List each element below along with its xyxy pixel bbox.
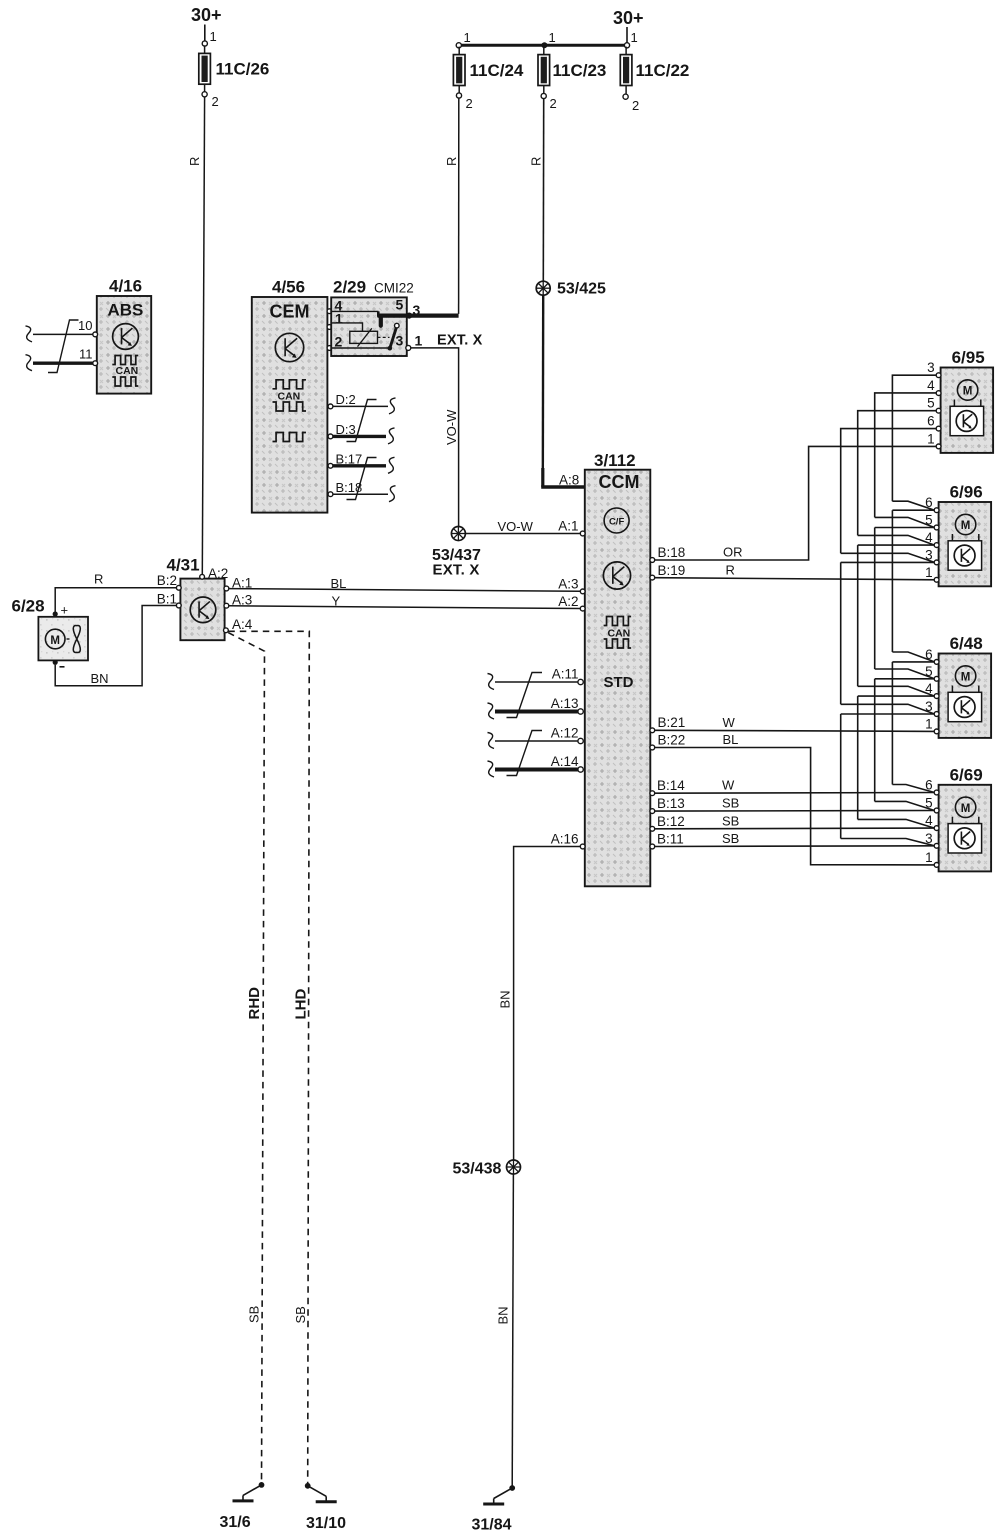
6/69 pin 3 (934, 843, 939, 848)
wire SB from CCM B:13 to 6/69 pin 5 (655, 810, 937, 813)
svg-text:1: 1 (925, 850, 933, 865)
CCM pin A:12 (578, 738, 583, 743)
6/95 pin 5 (936, 408, 941, 413)
wire BL from CCM B:22 to 6/69 pin 1 (655, 748, 937, 865)
svg-text:2: 2 (212, 94, 219, 109)
svg-text:M: M (50, 635, 60, 647)
svg-text:D:2: D:2 (336, 392, 356, 407)
wire R from 6/28 to 4/31 B:2 (55, 588, 178, 612)
svg-text:STD: STD (604, 674, 634, 691)
svg-text:B:12: B:12 (657, 814, 685, 829)
wire R from 11C/24 pin 2 to relay 2/29 (458, 98, 460, 314)
6/48 pin 3 (934, 712, 939, 717)
wire Y from 4/31 A:3 to CCM A:2 (229, 606, 581, 609)
wire to ABS pin 10 (33, 333, 93, 335)
cut mark (D:2) (389, 398, 396, 414)
svg-text:BL: BL (723, 732, 739, 747)
svg-text:6: 6 (925, 495, 933, 510)
6/28 plus terminal (53, 611, 58, 616)
wire R from 11C/26 pin 2 to 4/31 A:2 (202, 97, 204, 575)
svg-text:W: W (722, 778, 735, 793)
6/28 minus terminal (53, 660, 58, 665)
CEM pin 1 (327, 325, 332, 330)
servo motor module 6/96 (939, 502, 992, 586)
svg-text:CEM: CEM (270, 302, 310, 322)
CCM pin B:21 (650, 728, 655, 733)
motor symbol M in 6/48 (952, 666, 978, 693)
svg-text:3: 3 (925, 699, 933, 714)
svg-text:2: 2 (335, 334, 343, 350)
CCM pin A:2 (580, 606, 585, 611)
junction 11C/23 pin 1 (541, 42, 547, 48)
CCM pin B:12 (650, 826, 655, 831)
4/31 pin A:1 (224, 586, 229, 591)
svg-text:53/438: 53/438 (453, 1161, 502, 1178)
svg-text:BL: BL (331, 576, 347, 591)
C/F symbol in CCM (604, 508, 629, 533)
svg-text:3/112: 3/112 (594, 451, 636, 470)
splice 53/438 (507, 1160, 521, 1174)
fan blade symbol in 6/28 (73, 626, 80, 653)
svg-text:B:13: B:13 (657, 796, 685, 811)
svg-text:EXT. X: EXT. X (433, 562, 480, 579)
6/69 pin 4 (934, 826, 939, 831)
svg-text:6/96: 6/96 (950, 483, 983, 502)
6/48 pin 6 (934, 660, 939, 665)
6/95 pin 3 (936, 373, 941, 378)
svg-text:31/84: 31/84 (472, 1517, 512, 1534)
twisted pair slash (ABS) (48, 320, 79, 373)
ground 31/6 (259, 1482, 265, 1488)
svg-text:R: R (444, 157, 459, 166)
svg-text:4/31: 4/31 (167, 556, 200, 575)
svg-text:R: R (187, 157, 202, 166)
svg-text:VO-W: VO-W (498, 519, 534, 534)
svg-text:1: 1 (335, 311, 343, 327)
svg-text:1: 1 (927, 431, 935, 446)
6/69 pin 1 (934, 863, 939, 868)
cut mark (pin 11 wire) (26, 355, 33, 371)
svg-text:A:12: A:12 (551, 726, 579, 741)
svg-text:M: M (961, 672, 971, 684)
svg-text:6/28: 6/28 (12, 597, 45, 616)
svg-text:BN: BN (498, 990, 513, 1008)
svg-text:A:1: A:1 (558, 519, 578, 534)
svg-text:SB: SB (722, 813, 739, 828)
relay pin 4 wire (331, 310, 378, 312)
CEM pin 4 (327, 309, 332, 314)
6/95 pin 6 (936, 426, 941, 431)
svg-text:A:4: A:4 (232, 617, 253, 632)
CAN symbol in ABS (112, 356, 138, 387)
cut mark (B:18) (389, 486, 396, 502)
svg-text:BN: BN (91, 671, 109, 686)
CCM pin B:13 (650, 809, 655, 814)
ground 31/10 (305, 1483, 311, 1489)
svg-text:30+: 30+ (191, 5, 222, 25)
svg-text:5: 5 (925, 796, 933, 811)
cut mark (A:13) (488, 703, 495, 719)
svg-text:ABS: ABS (108, 301, 144, 320)
svg-text:1: 1 (549, 30, 556, 45)
svg-text:SB: SB (247, 1306, 262, 1323)
svg-text:2/29: 2/29 (333, 278, 366, 297)
wire 30+ to 11C/22 pin 1 (626, 27, 628, 43)
cut mark (A:14) (488, 761, 495, 777)
svg-text:C/F: C/F (609, 517, 625, 528)
svg-text:4/16: 4/16 (109, 277, 142, 296)
svg-text:10: 10 (78, 318, 92, 333)
svg-text:1: 1 (210, 29, 217, 44)
wire to ABS pin 11 (thick) (33, 362, 93, 365)
svg-text:R: R (726, 563, 735, 578)
6/96 pin 1 (934, 577, 939, 582)
K symbol in ABS (113, 324, 139, 350)
4/31 pin B:2 (176, 585, 181, 590)
svg-text:CAN: CAN (278, 391, 301, 403)
svg-text:11: 11 (79, 347, 93, 362)
CEM pin D:2 (328, 404, 333, 409)
svg-text:5: 5 (396, 297, 404, 313)
svg-text:RHD: RHD (246, 987, 263, 1020)
svg-text:3: 3 (413, 302, 421, 318)
svg-text:31/10: 31/10 (306, 1515, 346, 1532)
wire BN from CCM A:16 to ground 31/84 (514, 847, 581, 1161)
6/96 pin 4 (934, 543, 939, 548)
svg-text:1: 1 (925, 565, 933, 580)
fan motor 6/28 (38, 617, 88, 661)
bus wire (pins 4) (858, 411, 937, 828)
wire to A:13 (thick) (495, 710, 578, 714)
6/96 pin 3 (934, 560, 939, 565)
svg-text:B:1: B:1 (157, 592, 177, 607)
K symbol in 6/48 (948, 692, 982, 721)
svg-text:1: 1 (464, 30, 471, 45)
6/96 pin 5 (934, 525, 939, 530)
wire R from CCM B:19 to 6/96 pin 1 (655, 578, 937, 580)
svg-text:A:14: A:14 (551, 754, 579, 769)
relay feed (thick) to pin 5 / fuse 11C/24 (378, 313, 459, 326)
4/31 pin A:2 (200, 574, 205, 579)
svg-text:SB: SB (722, 796, 739, 811)
svg-text:+: + (61, 603, 69, 618)
svg-text:4: 4 (925, 681, 933, 696)
ABS pin 10 (93, 332, 98, 337)
svg-text:2: 2 (632, 98, 639, 113)
splice 53/425 (536, 281, 550, 295)
svg-text:5: 5 (925, 513, 933, 528)
wire R from 11C/23 pin 2 to splice 53/425 (542, 99, 544, 282)
CCM pin A:16 (580, 844, 585, 849)
svg-text:31/6: 31/6 (220, 1514, 251, 1531)
svg-text:B:22: B:22 (658, 733, 686, 748)
motor symbol M in 6/69 (952, 797, 978, 824)
4/31 pin A:3 (224, 603, 229, 608)
6/95 pin 1 (936, 444, 941, 449)
svg-text:6: 6 (925, 647, 933, 662)
svg-text:B:21: B:21 (658, 715, 686, 730)
wire to A:14 (thick) (495, 768, 578, 772)
svg-text:30+: 30+ (613, 8, 644, 28)
wire VO-W from splice to CCM A:1 (466, 533, 581, 535)
control module 3/112 CCM (585, 470, 651, 887)
CEM pin 2 (327, 346, 332, 351)
svg-text:M: M (961, 520, 971, 532)
svg-text:CMI22: CMI22 (374, 281, 414, 296)
wire W from CCM B:14 to 6/69 pin 6 (655, 792, 937, 795)
svg-text:11C/24: 11C/24 (470, 61, 524, 80)
6/69 pin 6 (934, 790, 939, 795)
svg-text:VO-W: VO-W (444, 409, 459, 445)
CCM pin A:14 (578, 767, 583, 772)
svg-text:OR: OR (723, 545, 743, 560)
relay pin 1 wire to coil (331, 323, 362, 331)
K symbol in CEM (275, 333, 303, 361)
twisted pair slash (B:17/B:18) (347, 458, 377, 500)
wire from D:2 (333, 405, 388, 407)
wire BL from 4/31 A:1 to CCM A:3 (229, 589, 581, 592)
svg-text:4/56: 4/56 (272, 278, 305, 297)
svg-text:B:2: B:2 (157, 573, 177, 588)
svg-text:EXT. X: EXT. X (437, 333, 483, 349)
servo motor module 6/95 (941, 368, 994, 453)
bus wire (pins 3) (841, 429, 937, 846)
svg-text:4: 4 (925, 530, 933, 545)
svg-text:1: 1 (925, 716, 933, 731)
CCM pin B:22 (650, 745, 655, 750)
CCM pin A:1 (580, 531, 585, 536)
fuse 11C/24 (453, 30, 524, 111)
CCM pin A:3 (580, 589, 585, 594)
mechanical link (dashed) (378, 336, 390, 338)
bus wire joining fuse pins 1 (459, 44, 627, 47)
6/48 pin 5 (934, 676, 939, 681)
motor symbol M in 6/28 (45, 629, 69, 649)
svg-text:5: 5 (925, 664, 933, 679)
CCM pin B:11 (650, 844, 655, 849)
motor symbol M in 6/95 (954, 380, 980, 407)
CEM pin B:17 (328, 463, 333, 468)
svg-text:11C/23: 11C/23 (553, 61, 607, 80)
twisted pair slash (A:11/A:13) (507, 673, 543, 718)
svg-text:B:18: B:18 (658, 545, 686, 560)
relay pin 2 wire (331, 347, 390, 349)
svg-text:SB: SB (293, 1306, 308, 1323)
svg-text:W: W (723, 715, 736, 730)
svg-text:A:11: A:11 (552, 667, 579, 682)
svg-text:6: 6 (925, 778, 933, 793)
CAN symbol in CEM (273, 380, 306, 411)
dashed wire LHD from A:4 (228, 631, 309, 1486)
cut mark (A:12) (488, 733, 495, 749)
fuse 11C/22 (620, 30, 689, 113)
svg-text:A:13: A:13 (551, 696, 579, 711)
relay pin 3 (406, 345, 411, 350)
svg-text:B:11: B:11 (657, 832, 684, 847)
bus wire (pins 6) (892, 375, 936, 792)
wire R from splice 53/425 to CCM A:8 (542, 295, 545, 487)
ABS pin 11 (93, 361, 98, 366)
svg-text:11C/22: 11C/22 (636, 61, 690, 80)
svg-text:11C/26: 11C/26 (216, 60, 270, 79)
ground 31/84 (509, 1485, 515, 1491)
svg-text:5: 5 (927, 396, 935, 411)
svg-text:6/48: 6/48 (950, 634, 983, 653)
svg-text:4: 4 (927, 378, 935, 393)
svg-text:4: 4 (925, 813, 933, 828)
svg-text:B:19: B:19 (658, 563, 686, 578)
CEM pin B:18 (328, 492, 333, 497)
wire EXT.X from relay pin 3 to splice 53/437 (411, 348, 459, 527)
4/31 pin B:1 (176, 603, 181, 608)
dashed wire RHD from A:4 (228, 633, 264, 1485)
6/48 pin 4 (934, 694, 939, 699)
svg-text:B:18: B:18 (336, 480, 363, 495)
svg-text:6/95: 6/95 (952, 348, 985, 367)
CCM pin B:18 (650, 558, 655, 563)
svg-text:R: R (94, 572, 103, 587)
servo motor module 6/69 (939, 785, 992, 872)
wire BN from 6/28 to 4/31 B:1 (55, 606, 178, 686)
svg-text:R: R (529, 157, 544, 166)
relay 2/29 (331, 297, 407, 357)
svg-text:6: 6 (927, 414, 935, 429)
relay coil (350, 328, 378, 346)
relay 4/31 (180, 579, 224, 641)
svg-text:A:8: A:8 (559, 473, 579, 488)
wire to A:12 (495, 740, 578, 742)
6/95 pin 4 (936, 391, 941, 396)
wire OR from CCM B:18 to 6/95 pin 1 (655, 446, 937, 560)
K symbol in 6/96 (948, 541, 982, 570)
CCM pin A:11 (578, 679, 583, 684)
CEM pin D:3 (328, 434, 333, 439)
svg-text:M: M (961, 803, 971, 815)
svg-text:SB: SB (722, 831, 739, 846)
svg-text:M: M (963, 386, 973, 398)
svg-text:2: 2 (550, 96, 557, 111)
CCM pin A:13 (578, 709, 583, 714)
svg-text:3: 3 (396, 333, 404, 349)
svg-text:CAN: CAN (608, 628, 631, 640)
bus wire (pins 5) (875, 393, 937, 811)
servo motor module 6/48 (939, 654, 992, 738)
CAN symbol in CCM (604, 617, 632, 649)
6/69 pin 5 (934, 808, 939, 813)
relay switch arm (388, 323, 400, 350)
svg-text:A:16: A:16 (551, 832, 579, 847)
wire W from CCM B:21 to 6/48 pin 1 (655, 730, 937, 731)
twisted pair slash (D:2/D:3) (347, 400, 377, 442)
fuse 11C/23 (538, 30, 606, 111)
wire from B:18 (333, 493, 388, 495)
svg-text:Y: Y (332, 594, 341, 609)
control unit 4/16 ABS (97, 296, 151, 394)
svg-text:CCM: CCM (599, 472, 640, 492)
wire from B:17 (thick) (333, 464, 386, 467)
CCM pin B:19 (650, 575, 655, 580)
wire from D:3 (thick) (333, 435, 386, 438)
svg-text:3: 3 (925, 831, 933, 846)
CCM pin B:14 (650, 791, 655, 796)
6/96 pin 6 (934, 508, 939, 513)
K symbol in 4/31 (190, 597, 216, 623)
svg-text:A:2: A:2 (208, 566, 228, 581)
6/48 pin 1 (934, 729, 939, 734)
svg-text:CAN: CAN (116, 365, 139, 377)
svg-text:53/425: 53/425 (557, 281, 606, 298)
svg-text:3: 3 (925, 547, 933, 562)
svg-text:1: 1 (631, 30, 638, 45)
svg-text:A:2: A:2 (558, 594, 578, 609)
svg-text:A:3: A:3 (558, 577, 578, 592)
wire to A:11 (495, 681, 578, 683)
svg-text:BN: BN (496, 1306, 511, 1324)
cut mark (pin 10 wire) (26, 326, 33, 342)
svg-text:6/69: 6/69 (950, 765, 983, 784)
svg-text:B:14: B:14 (657, 778, 685, 793)
wire 30+ to 11C/26 pin 1 (204, 25, 206, 41)
wire SB from CCM B:12 to 6/69 pin 4 (655, 827, 937, 830)
4/31 pin A:4 (224, 628, 229, 633)
cut mark (D:3) (388, 428, 395, 444)
motor symbol M in 6/96 (952, 514, 978, 541)
cut mark (A:11) (488, 674, 495, 690)
K symbol in 6/69 (948, 824, 982, 853)
fuse 11C/26 (199, 29, 270, 109)
svg-text:3: 3 (927, 360, 935, 375)
control unit 4/56 CEM (252, 297, 328, 513)
cut mark (B:17) (388, 457, 395, 473)
wire SB from CCM B:11 to 6/69 pin 3 (655, 845, 937, 848)
svg-text:2: 2 (466, 96, 473, 111)
K symbol in CCM (603, 562, 630, 589)
splice 53/437 (451, 527, 465, 541)
svg-text:1: 1 (415, 333, 423, 349)
bus symbol in CEM (273, 433, 306, 442)
twisted pair slash (A:12/A:14) (507, 731, 543, 776)
svg-text:LHD: LHD (293, 989, 310, 1020)
K symbol in 6/95 (950, 406, 984, 435)
